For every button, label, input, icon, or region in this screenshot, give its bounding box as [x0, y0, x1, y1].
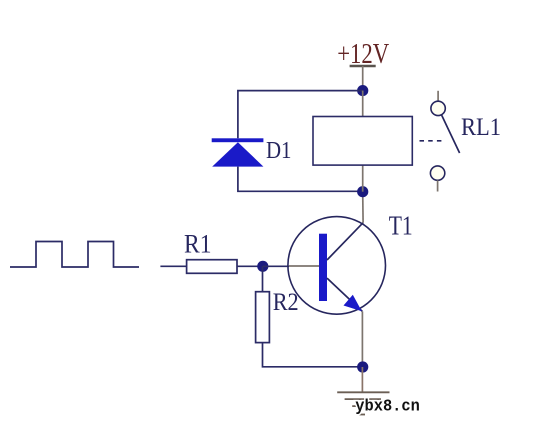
node emitter junction	[357, 361, 368, 372]
pin contact top	[437, 91, 439, 101]
svg-text:ybx8.cn: ybx8.cn	[355, 397, 420, 416]
wire R2 bottom to emitter node	[263, 343, 363, 367]
wire input to R1	[160, 265, 186, 267]
pin base of T1	[289, 265, 319, 267]
transistor T1	[288, 217, 386, 315]
resistor R2	[256, 292, 270, 343]
contact terminal bottom	[430, 166, 444, 180]
pin relay coil top	[362, 91, 364, 117]
switch arm	[442, 115, 460, 153]
svg-text:D1: D1	[266, 138, 292, 164]
contact terminal top	[431, 101, 445, 115]
svg-text:T1: T1	[389, 210, 413, 240]
resistor R1	[187, 260, 237, 274]
wire R1 to base node	[237, 265, 263, 267]
dashed actuator link	[420, 140, 444, 142]
ground	[337, 392, 389, 414]
pin power	[362, 66, 364, 91]
pin contact bottom	[437, 180, 439, 191]
pin relay coil bottom	[362, 165, 364, 192]
wire diode bottom to bottom junction	[238, 167, 363, 192]
svg-text:R1: R1	[184, 230, 212, 259]
relay coil RL1	[313, 117, 412, 166]
wire base node down to R2	[262, 266, 264, 291]
square wave input signal	[10, 242, 139, 268]
pin collector of T1	[362, 192, 364, 223]
pin ground	[361, 367, 363, 392]
diode D1	[212, 138, 264, 166]
wire top junction left to diode branch	[238, 91, 363, 139]
node top junction	[357, 85, 368, 96]
node base junction	[257, 261, 268, 272]
pin emitter of T1	[361, 311, 363, 367]
svg-text:R2: R2	[273, 289, 299, 316]
wire base node to transistor	[263, 265, 289, 267]
node bottom relay junction	[357, 186, 368, 197]
svg-text:RL1: RL1	[461, 114, 501, 141]
